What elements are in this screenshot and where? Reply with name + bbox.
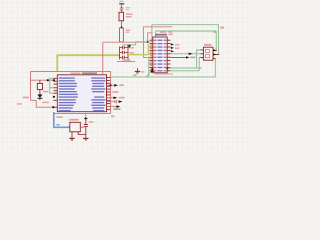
label near blue wire (56, 116, 62, 118)
wire green stubs into IC2 left pins (149, 47, 150, 54)
wire green stub into pin y87.8 (50, 87, 54, 89)
wire red bottom rail of cap bank (117, 60, 136, 62)
junction dot on pin row (52, 106, 54, 108)
IC1 name label (82, 72, 97, 74)
T1 name label (204, 44, 212, 46)
junction plus mark (127, 44, 131, 48)
wire red into IC1 left pin row y80 (31, 79, 54, 81)
wire olive stub near IC2 (128, 44, 149, 55)
ground GND1 top bar (119, 3, 124, 4)
wire red jog bottom left (31, 100, 54, 107)
label tiny text on long green wire (133, 75, 136, 76)
label near C4 (89, 121, 94, 123)
wire R10 down to junction (121, 20, 123, 28)
capacitor bank left rail (119, 47, 121, 60)
black arrow net flag row1 right of IC1 (107, 84, 125, 87)
ground below crystal left (69, 132, 74, 140)
wire green jog from cap bank to IC2 (123, 42, 148, 45)
wire red inner loop to IC2 pin (148, 33, 153, 42)
wire red stub into IC1 top (102, 71, 104, 74)
capacitor bank right rail (127, 46, 129, 62)
junction dot on loop vertical (110, 84, 112, 86)
label text row2 right of IC1 (112, 91, 118, 93)
capacitor C1 (120, 46, 128, 49)
IC2 name label (155, 34, 167, 36)
wire red loop bottom horizontal (54, 113, 111, 115)
diode D1 below R5 (37, 90, 42, 101)
ground below IC2 area (135, 68, 145, 73)
junction dot (121, 27, 123, 29)
IC2 body (153, 37, 167, 73)
junction at x147.7 (147, 41, 149, 43)
black arrow into IC2 bottom-left pin (151, 70, 155, 73)
transistor T1 body right (204, 47, 214, 60)
junction dot at IC1 pin row 97 (53, 96, 55, 98)
junction dot IC2 bottom left (151, 68, 153, 70)
label text right of IC1 bottom corner (114, 108, 121, 110)
wire green diagonal into IC2 pin (146, 72, 151, 77)
wire red net vertical x103 (102, 42, 104, 71)
capacitor C3 (120, 56, 128, 59)
supply +5V label right (213, 27, 224, 33)
wire olive net from cap bank to IC1 top (57, 55, 119, 72)
black arrow left of T1 (189, 53, 193, 55)
resistor R10 (119, 12, 133, 20)
IC2 left pin number specks outside (150, 41, 152, 69)
IC2 right pins (167, 40, 170, 71)
label text right of IC2 pins (169, 31, 173, 33)
capacitor C2 (120, 51, 128, 54)
wire with black arrow from IC2 pin row 57 (171, 56, 196, 58)
label near diode (43, 91, 49, 93)
IC1 body (57, 75, 106, 112)
wire from GND1 to C7 (121, 5, 123, 8)
wire green top loop 2 (156, 31, 216, 50)
label +5V text left (23, 97, 29, 99)
ground below C4 (83, 138, 88, 140)
wire green nest vertical 2 (199, 58, 203, 71)
polarized capacitor C4 with plus (84, 114, 88, 139)
label GND above bar (119, 1, 123, 2)
wire blue thick from IC1 bottom (54, 112, 70, 127)
resistor R5 left of IC1 (37, 80, 42, 89)
IC1 interior blue pin text left column (59, 77, 78, 111)
wire green top loop 1 (152, 25, 219, 55)
IC1 interior blue pin text right column (91, 77, 105, 111)
T1 left pins (201, 50, 204, 58)
black arrows on T1 right pins (213, 49, 216, 55)
crystal Q1 box (69, 119, 80, 132)
wire red loop top horizontal (31, 70, 111, 72)
black arrow net flag row3 right of IC1 (107, 97, 125, 100)
IC2 interior pin text rows (154, 40, 167, 72)
wire crystal right pin down to ground jog (78, 132, 86, 135)
T1 right pins (213, 50, 219, 58)
label text below loop corner (111, 115, 115, 117)
wire red below IC2 (155, 73, 173, 75)
IC1 left pins (54, 78, 58, 107)
T1 left wire with black arrow (171, 53, 204, 55)
wire green nest horizontal into IC2 corner (168, 67, 197, 69)
wire green vertical left of IC2 (148, 57, 150, 77)
junction dot at IC1 pin row 80 (53, 79, 55, 81)
wire red loop left vertical (30, 71, 32, 100)
IC2 left pins (150, 40, 153, 71)
label net text on bottom rail (123, 59, 131, 61)
wire red net horizontal y42 to IC2 loop (103, 41, 148, 43)
wire red loop right vertical (110, 71, 112, 113)
component F1 vertical box (120, 28, 131, 42)
wire green pair left of IC1 (50, 78, 54, 93)
capacitor and black arrow row4 right of IC1 (107, 100, 123, 103)
wire from crystal right to C4 (80, 126, 83, 128)
wire green from IC1 to IC2 bottom pin with arrow (111, 76, 197, 78)
label cap values (130, 47, 134, 48)
wire green IC2 bottom right going right (168, 67, 203, 69)
black arrow net flag row5 right of IC1 (107, 105, 121, 108)
wire red outer loop around IC2 top (144, 27, 173, 58)
junction dot IC2 bottom right (166, 67, 168, 69)
black arrows on IC2 right pins (171, 43, 174, 52)
wire green nest vertical 1 (197, 50, 204, 68)
wire green long return to T1 right pin (197, 58, 216, 77)
label blue text near corner (56, 124, 60, 125)
wire green nest into IC2 right lower pins (171, 70, 200, 72)
wire C7 to R10 (121, 10, 123, 12)
IC1 right pins (107, 78, 111, 110)
junction dot on that wire (47, 79, 49, 81)
capacitor C7 (120, 7, 130, 10)
